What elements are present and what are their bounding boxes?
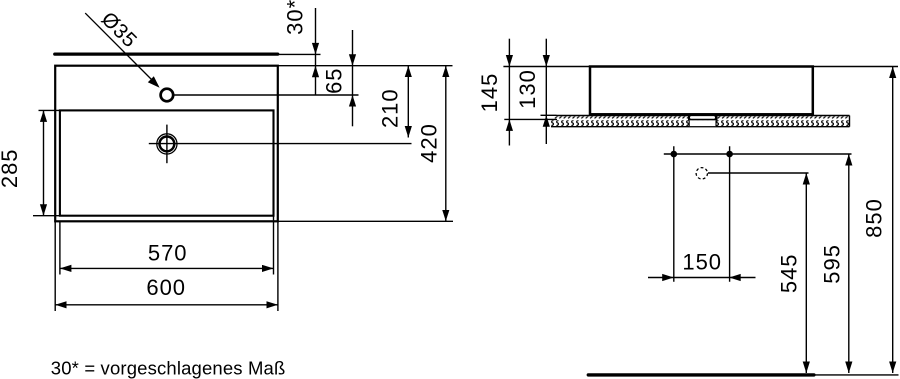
- extension line basin top right: [278, 65, 453, 67]
- basin inner rim (570 x 285): [60, 110, 274, 215]
- mounting holes horizontal line: [664, 153, 852, 155]
- dimension 570 line with arrows: [60, 267, 274, 269]
- faucet hole circle: [161, 89, 174, 102]
- drain stub horizontal line: [708, 172, 809, 174]
- arrow 130 down: [543, 55, 550, 67]
- svg-text:545: 545: [776, 253, 801, 293]
- arrow 150 left: [729, 274, 741, 281]
- extension line below inner-left corner: [59, 221, 61, 274]
- svg-text:595: 595: [820, 244, 845, 284]
- arrow 145 down: [506, 55, 513, 67]
- extension line basin bottom right: [278, 220, 453, 222]
- drain clearance white notch: [689, 120, 716, 126]
- arrow 130 up: [543, 115, 550, 127]
- dimension 850 line with arrows: [892, 67, 894, 374]
- svg-text:570: 570: [148, 240, 188, 265]
- notch left edge: [688, 120, 690, 126]
- extension line 145 level: [504, 118, 557, 120]
- mounting bracket black block: [688, 115, 718, 121]
- drain outer circle: [157, 134, 177, 154]
- countertop hatch lower row: [551, 120, 850, 126]
- extension line basin top left: [503, 66, 590, 68]
- extension line below inner-right corner: [273, 216, 275, 275]
- mounting bracket white slot: [690, 116, 715, 119]
- countertop hatch upper row: [554, 116, 850, 119]
- drain stub dashed circle: [696, 168, 707, 179]
- dimension 65 line: [352, 30, 354, 126]
- countertop bottom line: [551, 126, 850, 128]
- drain crosshair vertical: [166, 125, 168, 164]
- basin side outline: [590, 67, 813, 115]
- svg-text:150: 150: [682, 250, 722, 275]
- extension line basin top to 850: [813, 66, 898, 68]
- right mounting hole vertical line: [729, 146, 731, 281]
- extension line wall bar right: [278, 53, 321, 55]
- drain inner circle: [160, 137, 175, 152]
- arrow 30* down: [312, 43, 319, 55]
- floor extension line thin: [814, 374, 899, 376]
- dimension 595 line with arrows: [848, 154, 850, 373]
- arrow 30* up: [312, 66, 319, 78]
- svg-text:850: 850: [862, 198, 887, 238]
- extension line inner bottom left: [33, 215, 60, 217]
- countertop right end: [849, 116, 851, 127]
- svg-text:210: 210: [378, 88, 403, 128]
- leader line Ø35: [85, 13, 158, 86]
- arrow 145 up: [506, 119, 513, 130]
- countertop top line: [557, 115, 850, 117]
- floor line thick: [588, 373, 814, 376]
- dimension 150 line: [648, 277, 756, 279]
- dimension 210 line with arrows: [407, 66, 409, 138]
- dimension 145 line: [508, 39, 510, 146]
- svg-text:130: 130: [515, 69, 540, 109]
- arrow 150 right: [662, 274, 674, 281]
- svg-text:420: 420: [417, 123, 442, 163]
- right mounting hole dot: [726, 151, 733, 158]
- drain crosshair horizontal / extension to 210 dim: [149, 143, 412, 145]
- extension line 130 level: [541, 114, 557, 116]
- svg-text:65: 65: [322, 67, 347, 93]
- dimension 600 line with arrows: [55, 304, 278, 306]
- svg-text:30* = vorgeschlagenes Maß: 30* = vorgeschlagenes Maß: [51, 358, 286, 379]
- dimension 285 line with arrows: [43, 110, 45, 215]
- extension line inner top left: [39, 109, 60, 111]
- notch right edge: [715, 120, 717, 126]
- arrow 65 down: [349, 54, 356, 65]
- extension line below outer-right corner: [277, 221, 279, 311]
- svg-text:285: 285: [0, 148, 22, 188]
- svg-text:30*: 30*: [283, 0, 308, 35]
- dimension 545 line with arrows: [805, 173, 807, 373]
- dimension 30* line: [315, 8, 317, 96]
- left mounting hole vertical line: [673, 146, 675, 281]
- svg-text:145: 145: [477, 73, 502, 113]
- arrow 65 up: [349, 95, 356, 107]
- dimension 130 line: [545, 39, 547, 144]
- extension line faucet centre right: [175, 94, 359, 96]
- wall bar (thick top line): [55, 52, 278, 55]
- svg-text:600: 600: [146, 275, 186, 300]
- dimension 420 line with arrows: [445, 66, 447, 222]
- left mounting hole dot: [671, 151, 678, 158]
- basin outer rim (600 x 420): [55, 66, 278, 222]
- extension line below outer-left corner: [54, 221, 56, 311]
